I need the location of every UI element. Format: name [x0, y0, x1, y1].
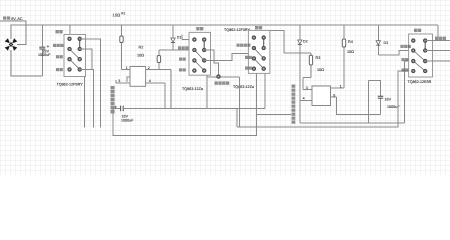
wire K4 row2 right [425, 50, 450, 52]
wire K1 box bottom down [84, 77, 86, 128]
wire C2 end to rail A [236, 108, 238, 127]
relay K4 [409, 34, 433, 77]
svg-text:5: 5 [333, 94, 335, 98]
node input label [3, 16, 23, 20]
svg-text:1: 1 [126, 66, 128, 70]
svg-text:4: 4 [303, 97, 305, 101]
label NO K3 [245, 56, 252, 59]
wire pin4 down [164, 83, 166, 108]
svg-text:10Ω: 10Ω [317, 68, 324, 72]
diode D1 [171, 25, 182, 50]
svg-text:TQ862-12E3R: TQ862-12E3R [408, 80, 432, 84]
svg-text:10Ω: 10Ω [113, 12, 121, 17]
svg-text:10Ω: 10Ω [137, 54, 144, 58]
wire K2 row2 staircase down [204, 50, 218, 76]
wire mid rail to pin5 line [257, 113, 292, 115]
diode D3 [376, 25, 399, 55]
svg-text:R4: R4 [348, 40, 353, 44]
label NC K3 [245, 67, 252, 70]
label device out [435, 37, 446, 40]
label NO K4 [402, 58, 409, 61]
ground rail A [237, 71, 413, 127]
vertical note text output port [292, 85, 296, 124]
resistor R2 [120, 25, 123, 69]
label common K1 [53, 44, 63, 47]
svg-text:4: 4 [149, 79, 151, 83]
label NC K2 [179, 68, 186, 71]
wire bus end down to K4 row1 [425, 25, 450, 40]
wire input top [0, 21, 26, 45]
value label C2 [121, 114, 134, 122]
wires relay K1 right side [80, 39, 101, 128]
wire K1 row4 [80, 69, 94, 127]
wire coil stub K2 [182, 35, 194, 40]
svg-text:TQ862-12P3RY: TQ862-12P3RY [57, 82, 84, 86]
wire pin5 down right [337, 97, 381, 114]
capacitor C1 [39, 46, 49, 50]
relay K3 [248, 30, 270, 73]
junction ball [217, 75, 220, 78]
label coil K1 [56, 30, 63, 33]
label common K3 [237, 44, 251, 47]
label R1 on bus [113, 12, 126, 18]
capacitor C1 leads [41, 25, 43, 76]
label NC K4 [402, 68, 409, 71]
capacitor C2 [114, 106, 266, 112]
svg-text:10Ω: 10Ω [347, 50, 354, 54]
label coil K3 [255, 26, 262, 29]
svg-text:TQ863-12Za: TQ863-12Za [233, 85, 255, 89]
regulator U1 [116, 66, 171, 86]
svg-text:1000uF: 1000uF [38, 53, 51, 57]
svg-text:R2: R2 [139, 45, 144, 49]
label NC K1 [56, 68, 63, 71]
wire bridge bottom to ground rail [11, 50, 43, 76]
svg-text:TQ862-12F3RY: TQ862-12F3RY [224, 28, 251, 32]
svg-text:TQ863-12Za: TQ863-12Za [182, 87, 204, 91]
wire K3 coil top to D2 [270, 30, 311, 53]
value label R2 [137, 45, 144, 57]
label NO K1 [56, 55, 63, 58]
wire under K3 left leg [256, 73, 258, 114]
wire K4 row3 right [425, 60, 450, 62]
resistor R4 [342, 25, 354, 88]
label NO K2 [179, 58, 186, 61]
svg-text:D1: D1 [177, 35, 182, 39]
vertical note text DC 12V [111, 86, 115, 114]
wire bus to relay K1 coil [69, 25, 71, 34]
wire pin2 down [170, 70, 172, 109]
diode D2 [298, 25, 405, 123]
label common K2 [178, 46, 188, 49]
svg-text:2: 2 [148, 66, 150, 70]
wire main bus [11, 24, 439, 26]
svg-text:6V, AC: 6V, AC [11, 17, 23, 21]
wire K1 row2 [80, 49, 92, 69]
capacitor C3 [369, 80, 401, 114]
svg-text:D3: D3 [384, 41, 389, 45]
wire C3 loop down [368, 80, 370, 123]
resistor R3 [303, 53, 324, 89]
wire node D1 to relay K2 row2 [159, 49, 195, 51]
svg-text:3: 3 [306, 86, 308, 90]
label coil K2 [196, 27, 203, 30]
wire junction down to rail A [239, 77, 241, 127]
wire bus to bridge top [10, 25, 12, 39]
svg-text:1: 1 [340, 85, 342, 89]
resistor R5 [157, 50, 160, 70]
svg-text:3: 3 [118, 79, 120, 83]
value label C1 [38, 49, 51, 57]
label coil K4 [414, 29, 421, 32]
bridge rectifier [5, 38, 18, 51]
wire K4 row3 loop [405, 61, 414, 123]
wire K2 row3 to K3 [204, 53, 252, 60]
svg-text:16V: 16V [385, 98, 392, 102]
wire D3 to K4 row2 [399, 50, 413, 52]
ic U2 [300, 85, 344, 106]
svg-text:R3: R3 [316, 56, 321, 60]
relay K2 [189, 32, 211, 75]
wire K2 bottom to junction rail [207, 75, 240, 108]
label common K4 [401, 45, 411, 48]
label control keys [215, 81, 230, 84]
svg-text:R1: R1 [121, 12, 125, 16]
relay K1 [64, 35, 86, 77]
svg-text:D2: D2 [303, 40, 308, 44]
ground rail B [113, 108, 257, 135]
wire under K3 right leg [264, 73, 266, 108]
svg-text:1000uF: 1000uF [121, 119, 134, 123]
